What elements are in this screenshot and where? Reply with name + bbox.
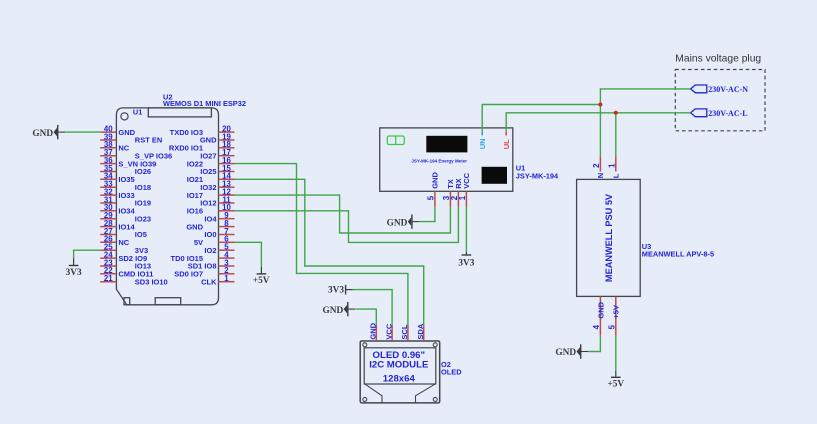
power 3V3 at U2 pin 25 (66, 258, 82, 278)
module O2 OLED body (360, 341, 440, 403)
pin 3 TX (U1) (442, 179, 455, 207)
wire GND to pin 40 (65, 131, 100, 133)
junction N net (598, 103, 602, 107)
pin 8 GND (U2 right) (186, 219, 234, 231)
svg-text:+5V: +5V (607, 380, 624, 390)
pin 22 CMD IO11 (U2 left) (100, 266, 153, 278)
svg-text:IO33: IO33 (118, 191, 134, 200)
svg-text:I2C MODULE: I2C MODULE (369, 360, 429, 371)
svg-text:4: 4 (592, 324, 601, 329)
svg-text:U1: U1 (133, 107, 142, 116)
pin 36 S_VN IO39 (U2 left) (100, 156, 156, 168)
pin 2 SD0 IO7 (U2 right) (174, 266, 234, 278)
svg-text:Mains voltage plug: Mains voltage plug (675, 54, 761, 65)
wire PSU +5V (615, 335, 617, 371)
pin 19 GND (U2 right) (200, 132, 235, 144)
pin 1 L (U3 top) (607, 156, 620, 178)
IC U2 WEMOS D1 MINI ESP32 body (116, 108, 218, 305)
pin 13 IO32 (U2 right) (200, 180, 234, 192)
pin 15 IO25 (U2 right) (200, 164, 234, 176)
dashed box mains plug (675, 70, 765, 131)
pin 1 CLK (U2 right) (201, 274, 234, 286)
JSY terminal block rectangle (482, 167, 507, 184)
svg-text:2: 2 (592, 163, 601, 168)
wire IO16 to JSY RX (235, 207, 459, 242)
wire IO21 SDA net (235, 179, 424, 325)
svg-text:IO16: IO16 (187, 207, 203, 216)
pin 6 5V (U2 right) (194, 235, 235, 247)
svg-text:IO26: IO26 (135, 167, 151, 176)
svg-text:SD3 IO10: SD3 IO10 (135, 277, 168, 286)
wire IO17 to JSY TX (235, 195, 451, 233)
svg-text:WEMOS D1 MINI ESP32: WEMOS D1 MINI ESP32 (163, 99, 246, 108)
svg-text:IO19: IO19 (135, 199, 151, 208)
pin 9 IO4 (U2 right) (204, 211, 234, 223)
pin GND (O2) (369, 322, 378, 341)
pin 16 IO22 (U2 right) (187, 156, 235, 168)
wire 3V3 to pin 25 (74, 250, 101, 258)
pin 2 RX (U1) (450, 178, 463, 207)
svg-text:JSY-MK-194: JSY-MK-194 (516, 171, 559, 180)
pin 35 IO26 (U2 left) (100, 164, 151, 176)
pin 38 NC (U2 left) (100, 140, 130, 152)
wire 230V-AC-N net (600, 89, 690, 156)
wire UL tap to PSU L (615, 113, 617, 157)
power +5V at U3 (607, 371, 624, 390)
svg-text:VCC: VCC (462, 172, 471, 188)
pin 14 IO21 (U2 right) (187, 172, 235, 184)
svg-text:GND: GND (32, 129, 53, 139)
svg-text:JSY-MK-194 Energy Meter: JSY-MK-194 Energy Meter (411, 158, 467, 163)
pin 27 IO5 (U2 left) (100, 227, 147, 239)
svg-text:L: L (612, 173, 621, 178)
svg-text:SDA: SDA (416, 323, 425, 339)
svg-text:GND: GND (323, 306, 344, 316)
pin 3 SD1 IO8 (U2 right) (188, 258, 235, 270)
pin 17 IO27 (U2 right) (200, 148, 234, 160)
pin 2 N (U3 top) (592, 156, 605, 178)
svg-text:230V-AC-N: 230V-AC-N (708, 85, 748, 94)
IC U1 JSY-MK-194 body (380, 128, 513, 191)
svg-text:5V: 5V (194, 238, 203, 247)
pin 11 IO12 (U2 right) (200, 195, 234, 207)
wire 5V to +5V symbol (235, 242, 262, 266)
svg-text:SCL: SCL (400, 324, 409, 339)
pin 5 GND (U1) (427, 172, 440, 207)
pin 20 TXD0 IO3 (U2 right) (170, 125, 235, 137)
svg-text:1: 1 (607, 163, 616, 168)
svg-text:1: 1 (458, 195, 467, 200)
svg-text:UN: UN (478, 138, 487, 149)
pin 18 RXD0 IO1 (U2 right) (169, 140, 235, 152)
svg-text:128x64: 128x64 (383, 373, 416, 384)
svg-text:UL: UL (502, 139, 511, 149)
wire 230V-AC-L net (506, 113, 691, 132)
svg-text:IO35: IO35 (118, 175, 134, 184)
power +5V at U2 pin 6 (253, 267, 270, 286)
svg-text:5: 5 (607, 324, 616, 329)
svg-text:OLED: OLED (441, 368, 462, 377)
JSY display rectangle (426, 136, 467, 153)
wire JSY VCC to 3V3 (465, 207, 467, 252)
pin 12 IO17 (U2 right) (187, 188, 235, 200)
pin 39 RST EN (U2 left) (100, 132, 162, 144)
svg-text:IO14: IO14 (118, 222, 135, 231)
JSY transformer icon (387, 136, 404, 145)
ground GND at U3 (555, 344, 588, 358)
svg-text:GND: GND (555, 348, 576, 358)
ground GND at U2 pin 40 (32, 125, 65, 139)
ground GND at O2 (323, 302, 356, 316)
svg-text:IO23: IO23 (135, 214, 151, 223)
pin UN (U1) (478, 132, 487, 149)
pin 7 IO0 (U2 right) (204, 227, 234, 239)
svg-text:RST EN: RST EN (135, 136, 163, 145)
svg-text:N: N (596, 173, 605, 178)
svg-text:IO0: IO0 (204, 230, 216, 239)
pin 34 IO35 (U2 left) (100, 172, 134, 184)
pin 24 SD2 IO9 (U2 left) (100, 251, 147, 263)
wire IO22 SCL net (235, 164, 408, 326)
power 3V3 at O2 VCC (328, 285, 353, 296)
svg-text:3V3: 3V3 (328, 286, 344, 296)
svg-text:3V3: 3V3 (458, 259, 474, 269)
ground GND at U1 (387, 214, 420, 228)
pin 28 IO14 (U2 left) (100, 219, 135, 231)
pin 30 IO34 (U2 left) (100, 203, 135, 215)
svg-text:230V-AC-L: 230V-AC-L (708, 109, 747, 118)
svg-text:MEANWELL PSU 5V: MEANWELL PSU 5V (604, 193, 614, 282)
hierarchical pin 230V-AC-L (691, 109, 748, 118)
pin UL (U1) (502, 132, 511, 149)
hierarchical pin 230V-AC-N (691, 85, 749, 94)
svg-text:1: 1 (224, 274, 229, 283)
pin 37 S_VP IO36 (U2 left) (100, 148, 172, 160)
pin 32 IO33 (U2 left) (100, 188, 134, 200)
svg-text:MEANWELL APV-8-5: MEANWELL APV-8-5 (642, 250, 714, 259)
wire OLED VCC (353, 290, 392, 326)
wire UN to N net (482, 105, 600, 132)
pin SDA (O2) (416, 323, 425, 341)
pin 1 VCC (U1) (458, 172, 471, 207)
svg-text:3V3: 3V3 (66, 268, 82, 278)
power 3V3 at U1 VCC (458, 252, 474, 269)
wire PSU GND (588, 335, 600, 351)
svg-text:GND: GND (186, 222, 203, 231)
wire OLED GND (356, 309, 377, 325)
svg-text:RXD0 IO1: RXD0 IO1 (169, 144, 203, 153)
pin 40 GND (U2 left) (100, 125, 135, 137)
svg-text:GND: GND (387, 218, 408, 228)
pin 25 3V3 (U2 left) (100, 243, 148, 255)
IC U3 MEANWELL PSU body (577, 179, 641, 296)
pin 4 TD0 IO15 (U2 right) (170, 251, 234, 263)
svg-text:VCC: VCC (384, 323, 393, 339)
svg-text:+5V: +5V (253, 276, 270, 286)
svg-text:IO34: IO34 (118, 207, 135, 216)
pin 29 IO23 (U2 left) (100, 211, 151, 223)
pin 5 IO2 (U2 right) (204, 243, 234, 255)
svg-text:21: 21 (104, 274, 113, 283)
pin VCC (O2) (384, 323, 393, 341)
pin SCL (O2) (400, 324, 409, 341)
svg-text:NC: NC (118, 144, 129, 153)
svg-text:+5V: +5V (612, 305, 621, 319)
svg-text:5: 5 (427, 195, 436, 200)
pin 31 IO19 (U2 left) (100, 195, 151, 207)
pin 5 +5V (U3 bottom) (607, 296, 620, 335)
svg-text:GND: GND (118, 128, 135, 137)
svg-text:SD0 IO7: SD0 IO7 (174, 270, 203, 279)
svg-text:GND: GND (596, 301, 605, 318)
svg-text:GND: GND (431, 172, 440, 189)
junction L net (614, 111, 618, 115)
pin 21 SD3 IO10 (U2 left) (100, 274, 168, 286)
svg-text:IO18: IO18 (135, 183, 151, 192)
svg-text:IO4: IO4 (204, 214, 217, 223)
pin 23 IO13 (U2 left) (100, 258, 151, 270)
pin 33 IO18 (U2 left) (100, 180, 151, 192)
pin 26 NC (U2 left) (100, 235, 130, 247)
pin 4 GND (U3 bottom) (592, 296, 605, 335)
svg-text:IO5: IO5 (135, 230, 147, 239)
pin 10 IO16 (U2 right) (187, 203, 235, 215)
svg-text:CLK: CLK (201, 277, 217, 286)
svg-text:IO2: IO2 (204, 246, 216, 255)
wire JSY GND (419, 207, 435, 222)
svg-text:TXD0 IO3: TXD0 IO3 (170, 128, 203, 137)
svg-text:NC: NC (118, 238, 129, 247)
